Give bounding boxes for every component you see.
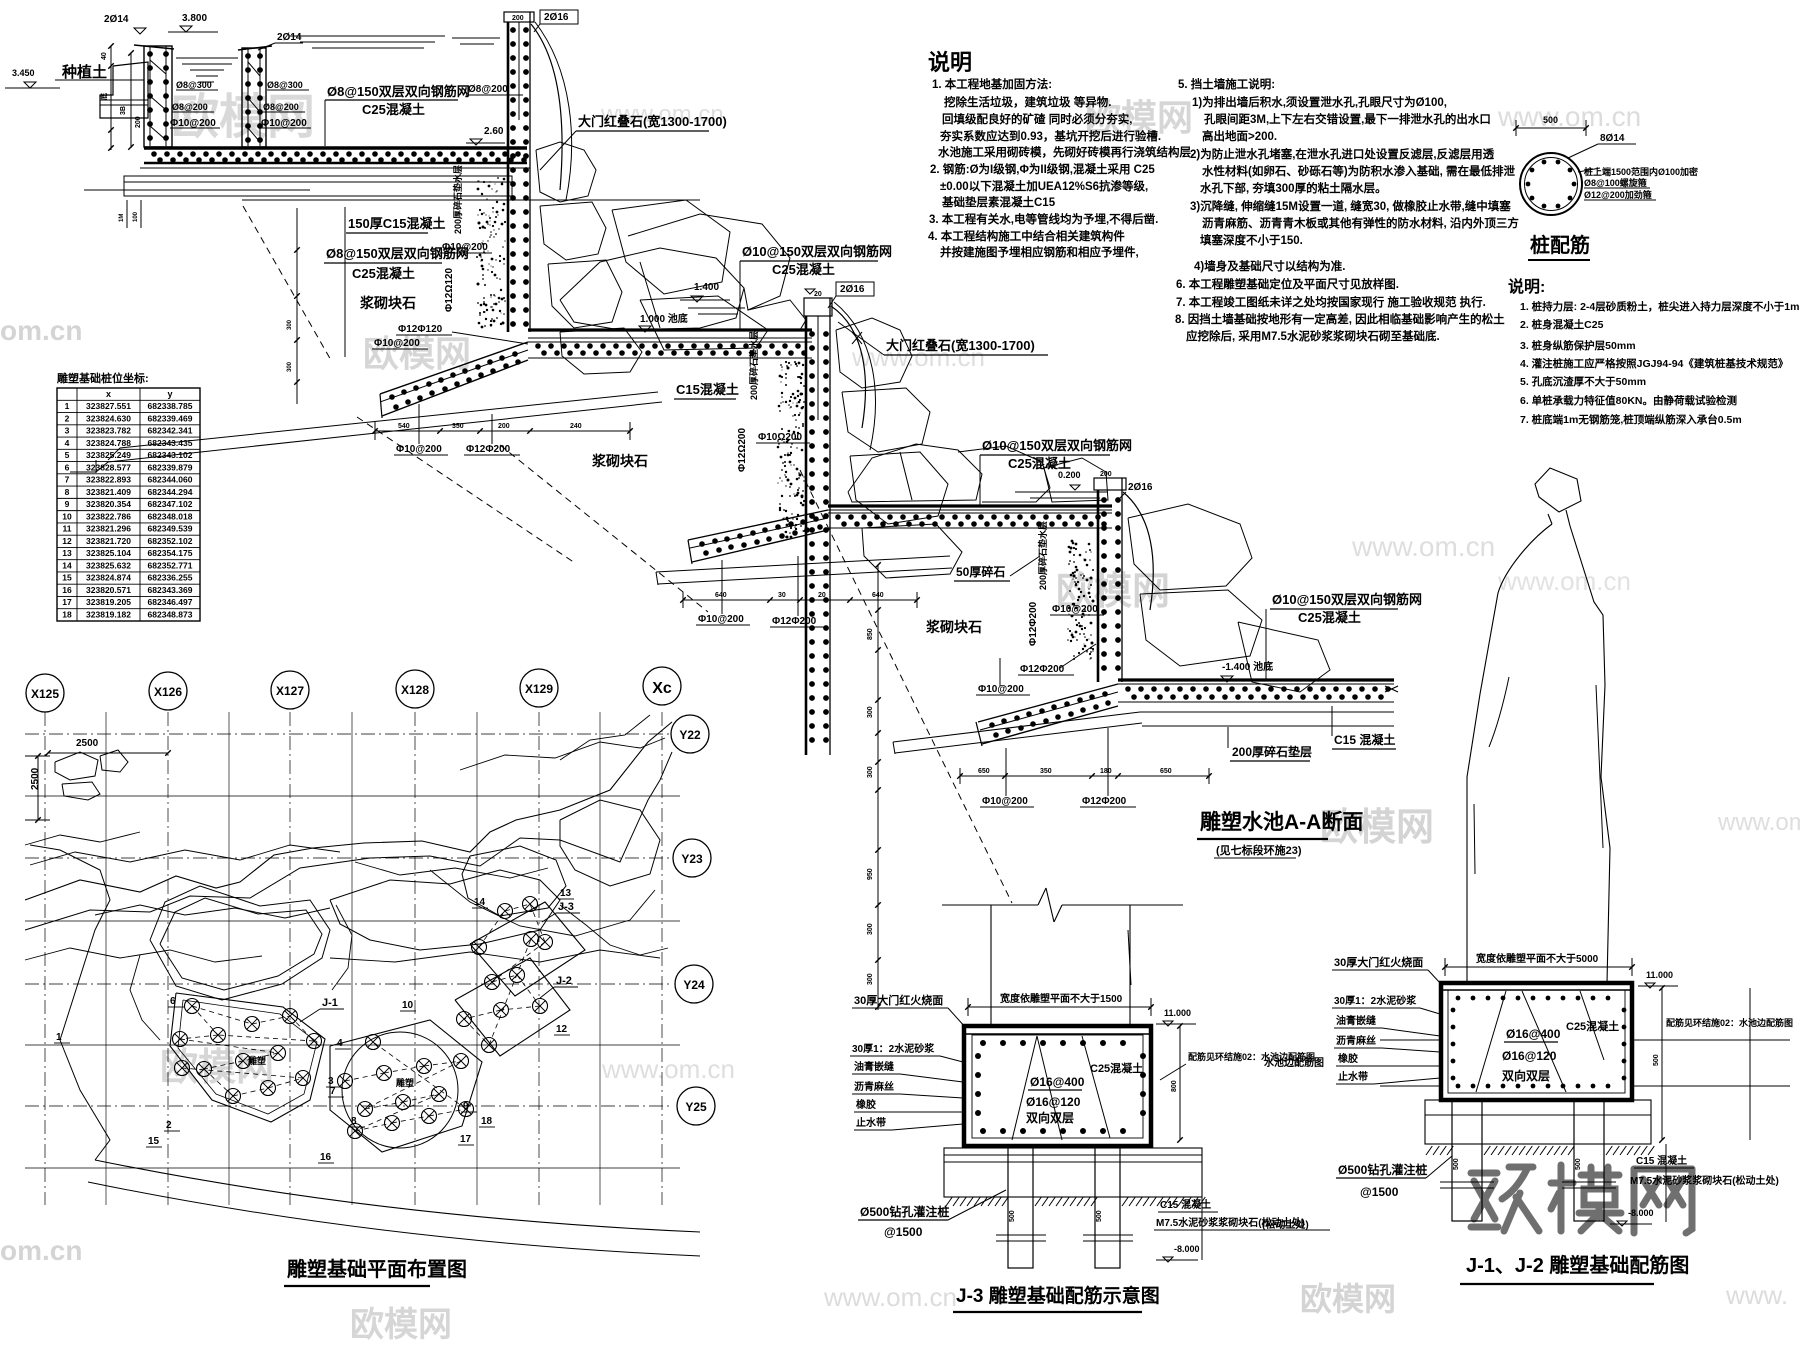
svg-text:Φ12Φ200: Φ12Φ200 (772, 616, 817, 627)
svg-text:1: 1 (56, 1032, 62, 1043)
dim line T4 (960, 775, 1210, 777)
svg-text:682343.102: 682343.102 (148, 450, 193, 460)
svg-text:J-2: J-2 (556, 975, 572, 987)
svg-text:www.om.cn: www.om.cn (1497, 566, 1631, 596)
svg-text:欧模网: 欧模网 (1300, 1281, 1396, 1317)
svg-text:欧模网: 欧模网 (350, 1306, 452, 1344)
svg-text:682348.018: 682348.018 (148, 511, 193, 521)
svg-text:(松动土处): (松动土处) (1262, 1218, 1309, 1231)
J1 ground hatch (1426, 1146, 1432, 1155)
ground line T1 (84, 189, 310, 191)
speckle stone T1 wall (480, 304, 483, 307)
plan extra rock lines 2 (30, 845, 340, 865)
svg-text:323824.874: 323824.874 (86, 573, 131, 583)
svg-text:Φ10@200: Φ10@200 (978, 684, 1024, 695)
svg-text:-1.400 池底: -1.400 池底 (1222, 660, 1273, 673)
svg-text:2: 2 (166, 1120, 172, 1131)
svg-text:(见七标段环施23): (见七标段环施23) (1216, 843, 1302, 857)
svg-text:底: 底 (99, 93, 108, 100)
svg-text:500: 500 (1575, 1158, 1582, 1170)
svg-text:油膏嵌缝: 油膏嵌缝 (854, 1060, 894, 1073)
svg-text:18: 18 (62, 610, 72, 620)
svg-text:682343.369: 682343.369 (148, 585, 193, 595)
pile cluster J-2 outline (455, 958, 570, 1056)
svg-text:323824.788: 323824.788 (86, 438, 131, 448)
svg-text:Y23: Y23 (681, 852, 703, 866)
arrow right end T4 (1385, 686, 1398, 692)
water lines T3 (1015, 491, 1108, 493)
J1 box diagonals (1476, 991, 1506, 1092)
svg-text:Ø8@300: Ø8@300 (267, 80, 303, 90)
svg-text:11: 11 (63, 524, 72, 534)
bent bar curves T1 (531, 24, 562, 190)
pile section dim 500 (1516, 127, 1586, 129)
svg-text:100: 100 (133, 211, 139, 222)
svg-text:323823.782: 323823.782 (86, 426, 131, 436)
svg-text:Φ12Φ120: Φ12Φ120 (398, 324, 443, 335)
svg-text:640: 640 (872, 592, 884, 599)
svg-text:Ø8@150双层双向钢筋网: Ø8@150双层双向钢筋网 (327, 84, 470, 99)
plan extra rock lines (25, 948, 262, 962)
svg-text:17: 17 (62, 597, 72, 607)
svg-text:323821.409: 323821.409 (86, 487, 131, 497)
svg-text:500: 500 (1009, 1210, 1016, 1222)
planting soil detail block (100, 62, 148, 118)
svg-text:2500: 2500 (30, 767, 41, 790)
svg-text:水性材料(如卵石、砂砾石等)为防积水渗入基础, 需在最低排泄: 水性材料(如卵石、砂砾石等)为防积水渗入基础, 需在最低排泄 (1202, 164, 1516, 178)
svg-text:欧模网: 欧模网 (160, 1047, 274, 1089)
svg-text:www.: www. (1725, 1280, 1788, 1310)
svg-text:浆砌块石: 浆砌块石 (592, 453, 648, 469)
svg-text:682352.771: 682352.771 (148, 560, 193, 570)
svg-text:C25混凝土: C25混凝土 (1298, 610, 1361, 625)
svg-text:2Ø14: 2Ø14 (277, 32, 302, 43)
svg-text:7: 7 (330, 1086, 336, 1097)
svg-text:2500: 2500 (76, 738, 99, 749)
svg-text:沥青麻丝: 沥青麻丝 (1336, 1034, 1376, 1047)
speckle stone T3 wall (1073, 604, 1075, 606)
svg-text:3B: 3B (120, 106, 127, 115)
svg-text:16: 16 (62, 585, 72, 595)
rock outlines right of T1 wall (536, 142, 596, 202)
svg-text:水池施工采用砌砖模，先砌好砖模再行浇筑结构层.: 水池施工采用砌砖模，先砌好砖模再行浇筑结构层. (938, 145, 1194, 159)
svg-text:13: 13 (62, 548, 72, 558)
svg-text:Φ12Φ200: Φ12Φ200 (1082, 796, 1127, 807)
J1 piles (1452, 1100, 1482, 1221)
sloped footing T2 (380, 342, 528, 394)
svg-text:Φ10@200: Φ10@200 (261, 118, 307, 129)
svg-text:350: 350 (452, 423, 464, 430)
J1 right lines (1632, 1039, 1790, 1041)
svg-text:Ø8@100螺旋箍: Ø8@100螺旋箍 (1584, 177, 1647, 188)
svg-text:说明: 说明 (928, 50, 972, 75)
svg-text:500: 500 (1453, 1158, 1460, 1170)
svg-text:J-1、J-2 雕塑基础配筋图: J-1、J-2 雕塑基础配筋图 (1466, 1253, 1689, 1277)
svg-text:X127: X127 (276, 684, 304, 698)
svg-text:C15 混凝土: C15 混凝土 (1334, 732, 1395, 747)
svg-text:夯实系数应达到0.93，基坑开挖后进行验槽.: 夯实系数应达到0.93，基坑开挖后进行验槽. (939, 129, 1161, 143)
svg-text:11.000: 11.000 (1164, 1008, 1191, 1018)
svg-text:10: 10 (62, 511, 72, 521)
svg-text:Φ12Φ200: Φ12Φ200 (1028, 601, 1039, 646)
svg-text:双向双层: 双向双层 (1026, 1110, 1074, 1125)
grid bubble Y24 (675, 965, 713, 1003)
svg-text:540: 540 (398, 423, 410, 430)
svg-text:10: 10 (402, 1000, 414, 1011)
svg-text:C25混凝土: C25混凝土 (362, 102, 425, 117)
svg-text:30厚1：2水泥砂浆: 30厚1：2水泥砂浆 (1334, 994, 1417, 1007)
svg-text:323827.551: 323827.551 (86, 401, 131, 411)
svg-text:8Ø14: 8Ø14 (1600, 133, 1625, 144)
plan rock outline right (560, 800, 660, 886)
svg-text:300: 300 (287, 319, 293, 330)
svg-text:Xc: Xc (652, 680, 672, 697)
retaining wall T1 right (504, 12, 534, 22)
svg-text:180: 180 (1100, 768, 1112, 775)
J3 ground hatch (946, 1197, 952, 1206)
grid bubble X128 (396, 670, 434, 708)
svg-text:682344.060: 682344.060 (148, 475, 193, 485)
svg-text:14: 14 (474, 897, 486, 908)
svg-text:500: 500 (1096, 1210, 1103, 1222)
svg-text:橡胶: 橡胶 (1338, 1052, 1358, 1065)
svg-text:3: 3 (65, 426, 70, 436)
svg-text:应挖除后, 采用M7.5水泥砂浆浆砌块石砌至基础底.: 应挖除后, 采用M7.5水泥砂浆浆砌块石砌至基础底. (1186, 329, 1440, 343)
sloped footing T3 (688, 510, 828, 540)
svg-text:桩上端1500范围内Ø100加密: 桩上端1500范围内Ø100加密 (1584, 166, 1698, 177)
bent bars T2 (831, 306, 865, 428)
svg-text:3.450: 3.450 (12, 68, 35, 78)
grid bubble X126 (149, 672, 187, 710)
svg-text:Φ10@200: Φ10@200 (1052, 604, 1098, 615)
svg-text:om.cn: om.cn (0, 1235, 82, 1266)
svg-text:Φ12Ω120: Φ12Ω120 (444, 268, 455, 312)
svg-text:8: 8 (65, 487, 70, 497)
svg-text:4. 灌注桩施工应严格按照JGJ94-94《建筑桩基技术规范: 4. 灌注桩施工应严格按照JGJ94-94《建筑桩基技术规范》 (1520, 357, 1788, 370)
svg-text:y: y (167, 389, 172, 399)
svg-text:682343.435: 682343.435 (148, 438, 193, 448)
retaining wall T2 (804, 298, 832, 316)
svg-text:Φ10Ω200: Φ10Ω200 (758, 432, 802, 443)
speckle stone T2 wall (802, 530, 803, 531)
svg-text:682352.102: 682352.102 (148, 536, 193, 546)
J1 sculpture neck (1548, 514, 1552, 524)
svg-text:30: 30 (778, 592, 786, 599)
svg-text:300: 300 (867, 923, 874, 935)
pile cluster J-2 piles (472, 940, 487, 955)
svg-text:Φ10@200: Φ10@200 (982, 796, 1028, 807)
svg-text:C25混凝土: C25混凝土 (1566, 1019, 1619, 1033)
base slab C15 T1 (124, 176, 512, 196)
svg-text:宽度依雕塑平面不大于5000: 宽度依雕塑平面不大于5000 (1475, 952, 1599, 965)
grid bubble X125 (26, 674, 64, 712)
water surface lines pool2 (290, 35, 445, 37)
pile cluster J-2 dashed ties (479, 911, 505, 947)
excavation dashed line D2 (500, 445, 708, 612)
J1 left lines (1380, 1039, 1441, 1041)
svg-text:浆砌块石: 浆砌块石 (360, 295, 416, 311)
svg-text:682347.102: 682347.102 (148, 499, 193, 509)
svg-text:沥青麻丝: 沥青麻丝 (854, 1080, 894, 1093)
bedding layers T3 (656, 556, 950, 572)
pool floor slab T3 (828, 504, 1112, 507)
svg-text:Ø16@400: Ø16@400 (1030, 1075, 1085, 1089)
svg-text:14: 14 (62, 560, 72, 570)
svg-text:323819.205: 323819.205 (86, 597, 131, 607)
svg-text:www.om.cn: www.om.cn (1351, 531, 1495, 562)
plan grid horizontal lines (25, 733, 672, 735)
grid bubble Xc (643, 667, 681, 705)
svg-text:2Ø16: 2Ø16 (544, 12, 569, 23)
svg-text:1. 本工程地基加固方法:: 1. 本工程地基加固方法: (932, 77, 1052, 91)
pile cluster J-1 piles (185, 999, 200, 1014)
svg-text:X129: X129 (525, 682, 553, 696)
svg-text:682349.539: 682349.539 (148, 524, 193, 534)
J3 sculpture side lines (990, 905, 992, 1027)
svg-text:950: 950 (867, 868, 874, 880)
svg-text:Φ10@200: Φ10@200 (374, 338, 420, 349)
svg-text:650: 650 (978, 768, 990, 775)
svg-text:水池边配筋图: 水池边配筋图 (1263, 1056, 1324, 1069)
svg-text:1. 桩持力层: 2-4层砂质粉土，桩尖进入持力层深度不小于: 1. 桩持力层: 2-4层砂质粉土，桩尖进入持力层深度不小于1m (1520, 300, 1799, 313)
svg-text:J-1: J-1 (322, 997, 338, 1009)
J3 foundation box (964, 1026, 1151, 1146)
svg-text:323822.786: 323822.786 (86, 511, 131, 521)
pool wall 1 (134, 45, 174, 49)
svg-text:2: 2 (65, 413, 70, 423)
J1 sculpture body outline (1467, 524, 1552, 983)
svg-text:323824.630: 323824.630 (86, 413, 131, 423)
svg-text:150厚C15混凝土: 150厚C15混凝土 (348, 216, 446, 231)
pile cluster mid outline (330, 1020, 482, 1152)
svg-text:6. 本工程雕塑基础定位及平面尺寸见放样图.: 6. 本工程雕塑基础定位及平面尺寸见放样图. (1176, 277, 1399, 291)
svg-text:2. 钢筋:Ø为I级钢,Φ为II级钢,混凝土采用 C25: 2. 钢筋:Ø为I级钢,Φ为II级钢,混凝土采用 C25 (930, 162, 1155, 176)
water surface lines pool1 (176, 57, 238, 59)
excavation dashed line T2 (357, 417, 575, 563)
svg-text:M7.5水泥砂浆浆砌块石(松动土处): M7.5水泥砂浆浆砌块石(松动土处) (1630, 1174, 1779, 1187)
svg-text:682342.341: 682342.341 (148, 426, 193, 436)
svg-text:1.400: 1.400 (694, 282, 719, 293)
pile section circle (1520, 153, 1582, 215)
svg-text:16: 16 (320, 1152, 332, 1163)
svg-text:Ø8@200: Ø8@200 (468, 84, 508, 95)
svg-text:8. 因挡土墙基础按地形有一定高差, 因此相临基础影响产生的: 8. 因挡土墙基础按地形有一定高差, 因此相临基础影响产生的松土 (1175, 312, 1505, 326)
svg-text:500: 500 (1653, 1054, 1660, 1066)
svg-text:宽度依雕塑平面不大于1500: 宽度依雕塑平面不大于1500 (999, 992, 1123, 1005)
svg-text:200厚碎石垫层: 200厚碎石垫层 (1232, 744, 1312, 759)
J3 piles (1008, 1146, 1033, 1268)
svg-text:C15 混凝土: C15 混凝土 (1636, 1154, 1687, 1167)
svg-text:682348.873: 682348.873 (148, 610, 193, 620)
svg-text:1.000 池底: 1.000 池底 (640, 312, 688, 325)
svg-text:323822.893: 323822.893 (86, 475, 131, 485)
svg-text:Ø8@300: Ø8@300 (176, 80, 212, 90)
svg-text:7. 本工程竣工图纸未详之处均按国家现行 施工验收规范 执行: 7. 本工程竣工图纸未详之处均按国家现行 施工验收规范 执行. (1176, 295, 1486, 309)
pool wall 2 (238, 46, 272, 50)
svg-text:323828.577: 323828.577 (86, 462, 131, 472)
svg-text:2. 桩身混凝土C25: 2. 桩身混凝土C25 (1520, 318, 1604, 331)
svg-text:300: 300 (867, 766, 874, 778)
svg-text:323820.571: 323820.571 (86, 585, 131, 595)
svg-text:682354.175: 682354.175 (148, 548, 193, 558)
svg-text:C25混凝土: C25混凝土 (772, 262, 835, 277)
svg-text:孔眼间距3M,上下左右交错设置,最下一排泄水孔的出水口: 孔眼间距3M,上下左右交错设置,最下一排泄水孔的出水口 (1204, 112, 1491, 126)
svg-text:850: 850 (867, 628, 874, 640)
svg-text:240: 240 (570, 423, 582, 430)
svg-text:9: 9 (463, 1101, 469, 1112)
svg-text:12: 12 (62, 536, 72, 546)
svg-text:基础垫层素混凝土C15: 基础垫层素混凝土C15 (941, 195, 1056, 209)
grid bubble X127 (271, 671, 309, 709)
svg-text:350: 350 (1040, 768, 1052, 775)
J1 box rebar dots (1456, 996, 1461, 1001)
svg-text:-8.000: -8.000 (1628, 1208, 1654, 1218)
svg-text:油膏嵌缝: 油膏嵌缝 (1336, 1014, 1376, 1027)
watermark om big dark (1471, 1170, 1497, 1177)
svg-text:640: 640 (715, 592, 727, 599)
svg-text:7: 7 (65, 475, 70, 485)
svg-text:0.200: 0.200 (1058, 470, 1081, 480)
svg-text:5: 5 (65, 450, 70, 460)
svg-text:C15 混凝土: C15 混凝土 (1160, 1198, 1211, 1211)
svg-text:2.60: 2.60 (484, 126, 504, 137)
svg-text:雕塑基础平面布置图: 雕塑基础平面布置图 (287, 1257, 467, 1281)
svg-text:C15混凝土: C15混凝土 (676, 382, 739, 397)
svg-text:3. 本工程有关水,电等管线均为予埋,不得后凿.: 3. 本工程有关水,电等管线均为予埋,不得后凿. (929, 212, 1158, 226)
svg-text:雕塑水池A-A断面: 雕塑水池A-A断面 (1200, 810, 1363, 834)
svg-text:2Ø16: 2Ø16 (1128, 482, 1153, 493)
svg-text:15: 15 (62, 573, 72, 583)
svg-text:9: 9 (65, 499, 70, 509)
svg-text:30厚1：2水泥砂浆: 30厚1：2水泥砂浆 (852, 1042, 935, 1055)
pool floor slab T1 (144, 146, 527, 149)
svg-text:200厚碎石垫水层: 200厚碎石垫水层 (1037, 521, 1048, 590)
excavation dashed line T1 (243, 206, 332, 362)
svg-text:Ø500钻孔灌注桩: Ø500钻孔灌注桩 (1338, 1162, 1427, 1177)
svg-text:682336.255: 682336.255 (148, 573, 193, 583)
svg-text:大门红叠石(宽1300-1700): 大门红叠石(宽1300-1700) (886, 338, 1035, 353)
svg-text:4: 4 (337, 1038, 343, 1049)
svg-text:200: 200 (498, 423, 510, 430)
svg-text:-8.000: -8.000 (1174, 1244, 1200, 1254)
svg-text:x: x (106, 389, 111, 399)
svg-text:J-3: J-3 (558, 901, 574, 913)
svg-text:J-3 雕塑基础配筋示意图: J-3 雕塑基础配筋示意图 (956, 1284, 1160, 1307)
svg-text:Ø10@150双层双向钢筋网: Ø10@150双层双向钢筋网 (1272, 592, 1422, 607)
svg-text:Ø16@400: Ø16@400 (1506, 1027, 1561, 1041)
svg-text:Φ12Ω200: Φ12Ω200 (737, 428, 748, 472)
svg-text:323821.720: 323821.720 (86, 536, 131, 546)
pile leader 8Ø14 (1568, 144, 1598, 158)
svg-text:Y24: Y24 (683, 978, 705, 992)
svg-text:1)为排出墙后积水,须设置泄水孔,孔眼尺寸为Ø100,: 1)为排出墙后积水,须设置泄水孔,孔眼尺寸为Ø100, (1192, 95, 1447, 109)
svg-text:双向双层: 双向双层 (1502, 1068, 1550, 1083)
plan small rocks top-left (55, 752, 98, 780)
svg-text:682339.879: 682339.879 (148, 462, 193, 472)
svg-text:4. 本工程结构施工中结合相关建筑构件: 4. 本工程结构施工中结合相关建筑构件 (928, 229, 1125, 243)
dim line T3 (683, 599, 917, 601)
svg-text:682344.294: 682344.294 (148, 487, 193, 497)
svg-text:www.om: www.om (1717, 809, 1800, 836)
svg-text:3. 桩身纵筋保护层50mm: 3. 桩身纵筋保护层50mm (1520, 339, 1636, 352)
svg-text:650: 650 (1160, 768, 1172, 775)
svg-text:@1500: @1500 (884, 1225, 923, 1239)
J1 sculpture head (1535, 468, 1581, 512)
svg-text:12: 12 (556, 1024, 568, 1035)
pile cluster J-1 outline (170, 993, 325, 1122)
J3 bedding slab (944, 1148, 1202, 1197)
svg-text:说明:: 说明: (1508, 277, 1545, 296)
svg-text:323825.632: 323825.632 (86, 560, 131, 570)
grid bubble Y25 (677, 1087, 715, 1125)
J3 break line top (942, 904, 1038, 906)
rock outlines right of T2 wall (836, 318, 912, 388)
svg-text:www.om.cn: www.om.cn (823, 1282, 957, 1312)
pool floor slab T2 (528, 328, 812, 331)
svg-text:200: 200 (512, 15, 524, 22)
svg-text:并按建施图予埋相应钢筋和相应予埋件,: 并按建施图予埋相应钢筋和相应予埋件, (940, 245, 1139, 259)
svg-text:Φ10@200: Φ10@200 (170, 118, 216, 129)
plan upper rock boundary (25, 722, 672, 900)
svg-text:8: 8 (351, 1116, 357, 1127)
pool floor slab T4 (1118, 678, 1394, 681)
J3 right dim (1179, 1026, 1181, 1140)
svg-text:挖除生活垃圾，建筑垃圾 等异物.: 挖除生活垃圾，建筑垃圾 等异物. (944, 95, 1111, 109)
svg-text:止水带: 止水带 (856, 1116, 886, 1129)
J1 right dim (1661, 988, 1663, 1140)
plan grid vertical lines (44, 712, 46, 1205)
svg-text:沥青麻筋、沥青青木板或其他有弹性的防水材料, 沿内外顶三方: 沥青麻筋、沥青青木板或其他有弹性的防水材料, 沿内外顶三方 (1202, 216, 1519, 230)
svg-text:雕塑: 雕塑 (248, 1055, 266, 1066)
pile cluster mid piles (338, 1074, 353, 1089)
svg-text:Ø500钻孔灌注桩: Ø500钻孔灌注桩 (860, 1204, 949, 1219)
svg-text:300: 300 (867, 973, 874, 985)
svg-text:X126: X126 (154, 685, 182, 699)
svg-text:200厚碎石垫水层: 200厚碎石垫水层 (748, 331, 759, 400)
svg-text:回填级配良好的矿碴 同时必须分夯实,: 回填级配良好的矿碴 同时必须分夯实, (942, 112, 1132, 126)
grid bubble X129 (520, 669, 558, 707)
svg-text:Ø8@200: Ø8@200 (263, 102, 299, 112)
dim chain left of pool (110, 46, 112, 150)
svg-text:Ø12@200加劲箍: Ø12@200加劲箍 (1584, 189, 1652, 200)
plan rock outline mid (330, 870, 560, 950)
svg-text:30厚大门红火烧面: 30厚大门红火烧面 (854, 993, 943, 1007)
excavation dashed line T3 (800, 470, 1012, 903)
svg-text:13: 13 (560, 888, 572, 899)
J3 box rebar dots (980, 1040, 986, 1046)
svg-text:om.cn: om.cn (0, 315, 82, 346)
svg-text:4)墙身及基础尺寸以结构为准.: 4)墙身及基础尺寸以结构为准. (1194, 259, 1345, 273)
pile labels (1578, 168, 1600, 172)
svg-text:浆砌块石: 浆砌块石 (926, 619, 982, 635)
svg-text:X128: X128 (401, 683, 429, 697)
svg-text:Ø8@200: Ø8@200 (172, 102, 208, 112)
svg-text:17: 17 (460, 1134, 472, 1145)
svg-text:雕塑基础桩位坐标:: 雕塑基础桩位坐标: (57, 371, 149, 385)
vertical leader x345 (344, 207, 346, 357)
svg-text:6: 6 (170, 996, 176, 1007)
svg-text:4: 4 (65, 438, 70, 448)
svg-text:800: 800 (1171, 1080, 1178, 1092)
svg-text:682338.785: 682338.785 (148, 401, 193, 411)
svg-text:1M: 1M (119, 214, 125, 222)
svg-text:Φ10@200: Φ10@200 (442, 242, 488, 253)
svg-text:Φ10@200: Φ10@200 (698, 614, 744, 625)
svg-text:Y22: Y22 (679, 728, 701, 742)
svg-text:种植土: 种植土 (61, 63, 107, 81)
plan left boundary (30, 845, 110, 1040)
plan mid rock outline left (150, 886, 330, 1000)
